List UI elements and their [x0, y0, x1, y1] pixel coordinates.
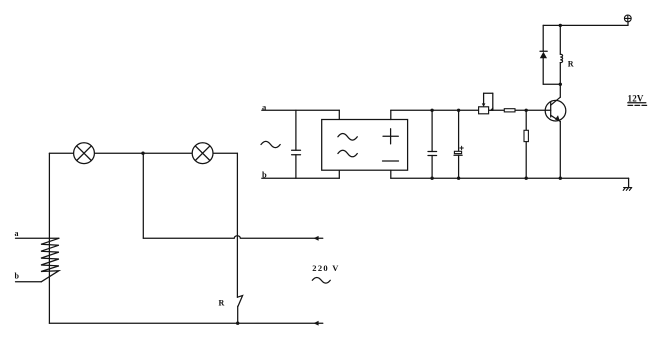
svg-text:R: R	[219, 298, 225, 307]
wire right tab bottom out of bridge	[390, 170, 392, 178]
wire top rail collector	[543, 24, 628, 26]
wire input top rail	[262, 109, 340, 111]
node dot C3 top	[457, 109, 460, 112]
node dot collector bar	[559, 83, 562, 86]
terminal circle-cross output	[624, 15, 631, 22]
bridge tilde lower	[338, 150, 357, 157]
wire top rail left circuit	[49, 152, 237, 154]
terminal arrow lower (220V feed)	[314, 321, 319, 326]
wire right vertical	[236, 153, 238, 297]
wire emitter down	[559, 122, 561, 179]
ac source tilde (220V)	[312, 277, 330, 283]
wire switch to bottom	[237, 306, 239, 323]
bridge plus sign	[383, 129, 398, 144]
wire input bottom rail	[262, 177, 340, 179]
wire tap b	[16, 281, 42, 283]
wire bottom rail left circuit	[49, 322, 322, 324]
node dot R2 bottom	[525, 177, 528, 180]
ground symbol	[623, 188, 632, 191]
node dot emitter bottom	[559, 177, 562, 180]
wire left tab top into bridge	[338, 110, 340, 119]
node dot C3 bottom	[457, 177, 460, 180]
potentiometer RP box	[479, 107, 489, 114]
terminal arrow upper (220V feed)	[314, 236, 319, 241]
node junction dot bottom wire	[236, 322, 239, 325]
svg-text:220 V: 220 V	[312, 263, 339, 273]
resistor R1 series box	[504, 109, 515, 112]
wire middle branch vertical	[142, 153, 144, 238]
underline of 12V	[628, 102, 646, 104]
svg-text:a: a	[15, 229, 19, 238]
wire R2 branch vertical	[525, 110, 527, 178]
dashed underline of 12V	[628, 104, 647, 106]
capacitor C2 filter	[428, 110, 437, 178]
winding T (tapped coil zigzag)	[41, 238, 59, 281]
wire output top rail	[391, 109, 551, 111]
node dot top rail	[559, 24, 562, 27]
wire tap a	[16, 237, 59, 239]
bridge rectifier U1 box	[322, 120, 408, 171]
node junction dot top rail	[141, 152, 144, 155]
wire left tab bottom into bridge	[338, 170, 340, 178]
wire stub up to terminal	[627, 22, 629, 26]
diode VD branch	[540, 25, 547, 84]
wire left vertical	[48, 153, 50, 323]
resistor R2 vertical box	[524, 130, 528, 141]
lamp EL2	[192, 143, 213, 164]
node dot C2 bottom	[430, 177, 433, 180]
node dot C2 top	[430, 109, 433, 112]
inductor coil R branch	[560, 25, 562, 84]
capacitor C3 electrolytic	[454, 110, 462, 178]
bridge tilde upper	[338, 134, 357, 141]
capacitor C1 input	[292, 110, 301, 178]
label plus of C3	[460, 146, 463, 149]
wire output bottom rail	[391, 177, 629, 179]
wire down to ground	[628, 178, 630, 187]
svg-text:b: b	[15, 272, 20, 281]
transistor Q1	[545, 97, 566, 121]
lamp EL1	[74, 143, 95, 164]
wire middle horizontal with hop over right vertical	[143, 236, 322, 239]
wire right tab top out of bridge	[390, 110, 392, 119]
wire collector up	[559, 84, 561, 97]
wire parallel combo bottom bar	[543, 83, 560, 85]
ac input tilde	[261, 141, 280, 147]
node dot base junction	[525, 109, 528, 112]
bridge minus sign	[383, 160, 399, 162]
svg-text:R: R	[568, 60, 574, 69]
switch R blade	[237, 296, 242, 307]
potentiometer wiper arrow	[482, 93, 494, 111]
svg-text:12V: 12V	[628, 93, 644, 103]
